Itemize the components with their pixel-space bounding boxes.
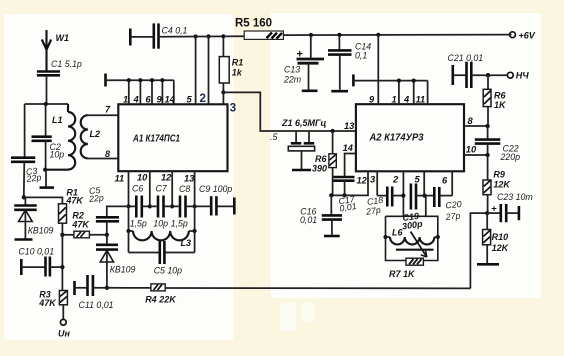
svg-text:C13: C13 bbox=[284, 65, 300, 75]
capacitor C8 bbox=[179, 184, 191, 218]
svg-text:+: + bbox=[491, 204, 497, 215]
svg-text:14: 14 bbox=[165, 95, 176, 105]
resistor R4 22K bbox=[145, 284, 177, 305]
svg-text:C6: C6 bbox=[132, 184, 143, 194]
varicap diode KB109 right bbox=[96, 233, 136, 290]
wire long bottom bus bbox=[165, 287, 470, 289]
svg-text:A1 К174ПС1: A1 К174ПС1 bbox=[132, 134, 180, 145]
svg-text:22m: 22m bbox=[283, 75, 301, 85]
wire antenna node bbox=[25, 75, 68, 106]
wire A1 pin 5 bbox=[187, 34, 198, 104]
resistor R1 47K bbox=[59, 188, 85, 235]
svg-text:12K: 12K bbox=[493, 180, 511, 190]
svg-text:6: 6 bbox=[442, 176, 448, 186]
svg-text:A2 К174УР3: A2 К174УР3 bbox=[369, 133, 424, 144]
svg-text:1: 1 bbox=[123, 95, 128, 105]
svg-text:12: 12 bbox=[357, 176, 368, 186]
capacitor C14 bbox=[328, 35, 371, 91]
svg-text:8: 8 bbox=[105, 149, 110, 159]
svg-text:C4 0,1: C4 0,1 bbox=[162, 26, 188, 36]
wire R1 to C10 node bbox=[60, 235, 64, 291]
svg-text:R10: R10 bbox=[492, 232, 509, 242]
svg-text:4: 4 bbox=[133, 95, 140, 105]
svg-text:14: 14 bbox=[343, 143, 354, 153]
svg-text:C10 0,01: C10 0,01 bbox=[18, 247, 54, 257]
svg-text:2: 2 bbox=[392, 175, 399, 185]
wire A2 pin 9 to rail bbox=[377, 35, 379, 104]
svg-text:10: 10 bbox=[137, 173, 148, 183]
svg-text:22p: 22p bbox=[88, 192, 105, 204]
svg-text:L2: L2 bbox=[90, 129, 101, 139]
svg-text:11: 11 bbox=[416, 95, 426, 105]
A1 bottom pin 13 bbox=[184, 171, 197, 208]
svg-text:C11 0,01: C11 0,01 bbox=[79, 300, 114, 310]
wire A2 pin 6 bbox=[442, 171, 452, 195]
varicap diode KB109 left bbox=[14, 197, 53, 239]
svg-text:22p: 22p bbox=[25, 172, 42, 184]
svg-text:L3: L3 bbox=[181, 238, 192, 248]
svg-text:НЧ: НЧ bbox=[516, 71, 529, 81]
inductor L1 bbox=[46, 104, 76, 170]
svg-text:C20: C20 bbox=[445, 199, 462, 211]
svg-text:1,5p: 1,5p bbox=[171, 219, 188, 229]
capacitor C11 bbox=[75, 275, 114, 310]
svg-text:220p: 220p bbox=[500, 152, 521, 162]
wire A1 pin 7 bbox=[88, 105, 118, 116]
terminal НЧ bbox=[507, 71, 529, 81]
svg-text:3: 3 bbox=[230, 103, 236, 115]
crystal Z1 6,5МГц bbox=[281, 118, 335, 170]
tank circuit box L6 C19 R7 bbox=[386, 211, 438, 261]
svg-text:12: 12 bbox=[161, 173, 172, 183]
capacitor C19 plates bbox=[411, 184, 427, 217]
wire output node riser bbox=[470, 213, 487, 288]
svg-text:11: 11 bbox=[115, 174, 125, 184]
wire varicap bias node bbox=[22, 195, 63, 204]
capacitor C7 bbox=[156, 184, 168, 218]
svg-text:W1: W1 bbox=[56, 33, 70, 43]
svg-text:47K: 47K bbox=[71, 220, 90, 230]
ground bar under L1 tank bbox=[40, 170, 55, 188]
svg-text:R9: R9 bbox=[493, 170, 505, 180]
op-amp U A1 К174ПС1 bbox=[118, 104, 227, 171]
capacitor C4 bbox=[130, 23, 187, 48]
resistor R5 160 bbox=[235, 18, 283, 40]
wire A2 pin 3 bbox=[370, 171, 387, 195]
svg-text:L1: L1 bbox=[52, 115, 63, 125]
svg-text:12K: 12K bbox=[492, 243, 510, 253]
wire bottom bus to R4 bbox=[107, 287, 151, 289]
A1 bottom pin 11 bbox=[115, 171, 131, 208]
svg-text:9: 9 bbox=[157, 95, 163, 105]
svg-text:1: 1 bbox=[392, 95, 397, 105]
A1 top pins 1 4 6 9 14 bypass bbox=[106, 74, 176, 105]
capacitor C10 bbox=[18, 247, 62, 277]
svg-text:R4 22K: R4 22K bbox=[145, 295, 177, 305]
capacitor C3 bbox=[11, 104, 42, 197]
wire A2 pin 10 bbox=[464, 145, 490, 158]
svg-text:47K: 47K bbox=[65, 196, 84, 206]
svg-text:КВ109: КВ109 bbox=[28, 226, 54, 236]
svg-text:C9 100p: C9 100p bbox=[199, 184, 232, 194]
svg-text:C23 10m: C23 10m bbox=[497, 192, 533, 202]
antenna W1 bbox=[42, 30, 69, 71]
svg-text:10p: 10p bbox=[50, 150, 65, 160]
svg-text:3: 3 bbox=[370, 175, 376, 185]
svg-text:R5 160: R5 160 bbox=[235, 18, 272, 30]
svg-text:C5 10p: C5 10p bbox=[154, 266, 182, 276]
svg-text:C7: C7 bbox=[156, 184, 168, 194]
capacitor C22 bbox=[475, 126, 520, 162]
wire pin3 node to Z1 node .5 bbox=[223, 92, 356, 142]
svg-text:КВ109: КВ109 bbox=[110, 265, 136, 275]
svg-text:1K: 1K bbox=[494, 100, 507, 110]
svg-text:9: 9 bbox=[369, 95, 375, 105]
svg-text:5: 5 bbox=[187, 95, 193, 105]
wire A2 pin 14 bbox=[343, 143, 356, 177]
svg-text:R7 1K: R7 1K bbox=[389, 269, 416, 279]
wire A2 pin 2 to tank bbox=[392, 171, 406, 216]
svg-text:.5: .5 bbox=[270, 132, 277, 142]
trimmer arrow bbox=[411, 232, 427, 258]
terminal Uн bbox=[58, 319, 70, 338]
svg-text:0,01: 0,01 bbox=[300, 215, 317, 225]
svg-text:R1: R1 bbox=[232, 58, 244, 68]
+6V supply rail bbox=[159, 33, 512, 37]
resistor R2 47K bbox=[60, 211, 107, 238]
svg-text:C8: C8 bbox=[179, 184, 190, 194]
capacitor C1 bbox=[37, 59, 82, 75]
svg-text:C21 0,01: C21 0,01 bbox=[448, 53, 484, 63]
capacitor C13 electrolytic bbox=[283, 35, 324, 91]
svg-text:13: 13 bbox=[184, 174, 195, 184]
svg-text:2: 2 bbox=[200, 93, 206, 105]
wire A2 pin 5 bbox=[415, 171, 425, 195]
resistor R6 390 bbox=[312, 131, 336, 195]
svg-text:10: 10 bbox=[466, 145, 477, 155]
resistor R7 1K bbox=[389, 258, 423, 279]
svg-text:4: 4 bbox=[403, 95, 410, 105]
capacitor C5 22p bbox=[88, 185, 119, 235]
svg-text:390: 390 bbox=[312, 164, 327, 174]
svg-text:13: 13 bbox=[344, 121, 355, 131]
wire filter bus y206 bbox=[107, 206, 235, 217]
resistor R6 1K bbox=[483, 75, 507, 126]
capacitor C23 electrolytic bbox=[485, 192, 533, 222]
svg-text:0,1: 0,1 bbox=[355, 51, 367, 61]
capacitor C6 bbox=[132, 184, 143, 218]
capacitor C9 bbox=[199, 184, 234, 216]
capacitor C21 bbox=[448, 53, 508, 88]
A1 bottom pin 12 bbox=[161, 171, 174, 208]
svg-text:8: 8 bbox=[468, 116, 474, 126]
svg-text:C1 5.1p: C1 5.1p bbox=[51, 59, 82, 69]
svg-text:+6V: +6V bbox=[519, 31, 536, 41]
svg-text:10p: 10p bbox=[153, 219, 168, 229]
svg-text:27p: 27p bbox=[444, 210, 461, 222]
capacitor C16 bbox=[300, 193, 342, 236]
wire A1 pin 3 bbox=[223, 92, 236, 114]
svg-text:Uн: Uн bbox=[58, 329, 70, 339]
svg-text:1,5p: 1,5p bbox=[130, 219, 147, 229]
svg-text:6: 6 bbox=[146, 95, 152, 105]
resistor R9 12K bbox=[483, 155, 511, 213]
svg-text:R6: R6 bbox=[494, 91, 506, 101]
svg-text:R6: R6 bbox=[315, 154, 327, 164]
wire A1 pin 8 bbox=[88, 149, 118, 159]
svg-text:5: 5 bbox=[415, 175, 421, 185]
resistor R3 47K bbox=[38, 290, 67, 320]
svg-text:1k: 1k bbox=[232, 68, 243, 78]
capacitor C18 bbox=[364, 187, 403, 217]
resistor R1 1k bbox=[219, 34, 243, 94]
wire A2 pin 8 bbox=[464, 116, 490, 128]
svg-text:47K: 47K bbox=[38, 298, 57, 308]
resistor R10 12K bbox=[477, 213, 510, 264]
A2 top pins 9 1 4 11 bypass bbox=[353, 74, 427, 104]
capacitor C2 bbox=[32, 104, 65, 172]
value labels 1,5p 10p 1,5p bbox=[130, 219, 188, 229]
capacitor C17 bbox=[333, 177, 357, 213]
A1 bottom pin 10 bbox=[137, 171, 152, 208]
wire A1 pin 2 bbox=[200, 34, 211, 105]
capacitor C5 10p bbox=[129, 231, 195, 276]
inductor L3 bbox=[126, 206, 196, 248]
inductor L6 bbox=[383, 228, 440, 250]
capacitor C20 bbox=[424, 187, 462, 222]
A2 pin 13 label bbox=[344, 121, 355, 131]
wire A2 pin 12 bbox=[331, 171, 368, 195]
svg-text:L6: L6 bbox=[392, 228, 403, 238]
inductor L2 bbox=[81, 115, 100, 158]
op-amp U A2 К174УР3 bbox=[356, 104, 464, 171]
svg-text:Z1 6,5МГц: Z1 6,5МГц bbox=[281, 118, 327, 128]
terminal +6V bbox=[510, 31, 536, 41]
